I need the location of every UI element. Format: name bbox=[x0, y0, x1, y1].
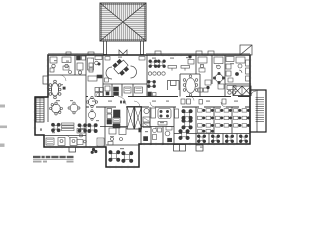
open office chair row bbox=[148, 72, 165, 75]
lounge sub-room fixtures bbox=[105, 86, 143, 96]
door mark between legs bbox=[119, 50, 127, 55]
title text bbox=[33, 156, 74, 163]
plant blob bbox=[91, 148, 98, 154]
top wall inner line bbox=[48, 53, 250, 55]
top block partitions bbox=[48, 55, 251, 107]
left margin smudges bbox=[0, 105, 7, 147]
conference oval right bbox=[183, 75, 198, 96]
lounge C sofas + diagonal tables bbox=[106, 66, 137, 79]
building exterior outline bbox=[35, 55, 250, 167]
lounge corner items bbox=[105, 57, 146, 83]
reception U desk bbox=[168, 81, 180, 91]
open office x147-196: twin dark tables bbox=[149, 60, 166, 68]
roof tower hatch bbox=[98, 0, 148, 45]
mid-bottom band fixtures x105-127 bbox=[108, 128, 126, 146]
desk room x86-103 bbox=[88, 56, 104, 97]
room x86-105 bottom: dark cluster + desk bbox=[86, 96, 104, 146]
bottom-left desks row bbox=[46, 136, 77, 146]
below-wall step boxes bbox=[69, 145, 203, 153]
top-right roof attachment bbox=[240, 45, 252, 55]
room x150-174 upper tables bbox=[151, 108, 171, 125]
exterior wall window ticks bbox=[34, 54, 251, 168]
corner office x225-251 bbox=[226, 57, 250, 95]
dark round tables x174-196 bbox=[175, 109, 193, 140]
toilet room right of elevators bbox=[143, 108, 150, 127]
roof tower outline and hips bbox=[100, 3, 146, 41]
protrusion round tables bbox=[109, 150, 133, 162]
bottom block partitions bbox=[44, 97, 250, 147]
open office T tables bbox=[168, 55, 194, 70]
extra furniture bits bbox=[60, 66, 233, 107]
X-braced void bbox=[233, 86, 251, 96]
room x212-225 bbox=[213, 57, 224, 84]
lounge diagonal workstation cluster bbox=[112, 58, 131, 77]
left hall oval conference table bbox=[49, 80, 65, 99]
left hall round tables upper bbox=[50, 102, 80, 115]
corridor wall lower y107 bbox=[86, 106, 250, 108]
left stair bbox=[36, 98, 44, 122]
tower legs bbox=[104, 41, 144, 55]
room x196-212 bbox=[198, 57, 208, 92]
corridor door marks + DN bbox=[118, 97, 226, 108]
protrusion top wall bbox=[35, 96, 48, 98]
bottom-middle small rooms fixtures bbox=[139, 127, 172, 142]
WC room fixtures bbox=[77, 56, 86, 74]
open office round cluster B bbox=[147, 80, 156, 96]
tiny room labels bbox=[52, 57, 238, 150]
FURNITURE: top-left office two desks bbox=[50, 57, 71, 72]
classroom desk grid bbox=[198, 109, 250, 133]
left wall ledge bbox=[43, 76, 48, 84]
elevator pair with X braces bbox=[127, 107, 142, 130]
left hall lower clusters + shelves bbox=[51, 123, 86, 132]
core cluster boxes bbox=[107, 109, 120, 129]
roof tower underlay bbox=[100, 3, 146, 41]
right stair tower bbox=[250, 90, 266, 132]
S label left of wall bbox=[40, 128, 42, 130]
bottom band clusters bbox=[197, 135, 248, 143]
bottom-left extra desks x76-88 bbox=[77, 129, 86, 145]
corridor wall upper y96.5 bbox=[86, 96, 250, 98]
window bumps above top wall bbox=[66, 51, 214, 55]
